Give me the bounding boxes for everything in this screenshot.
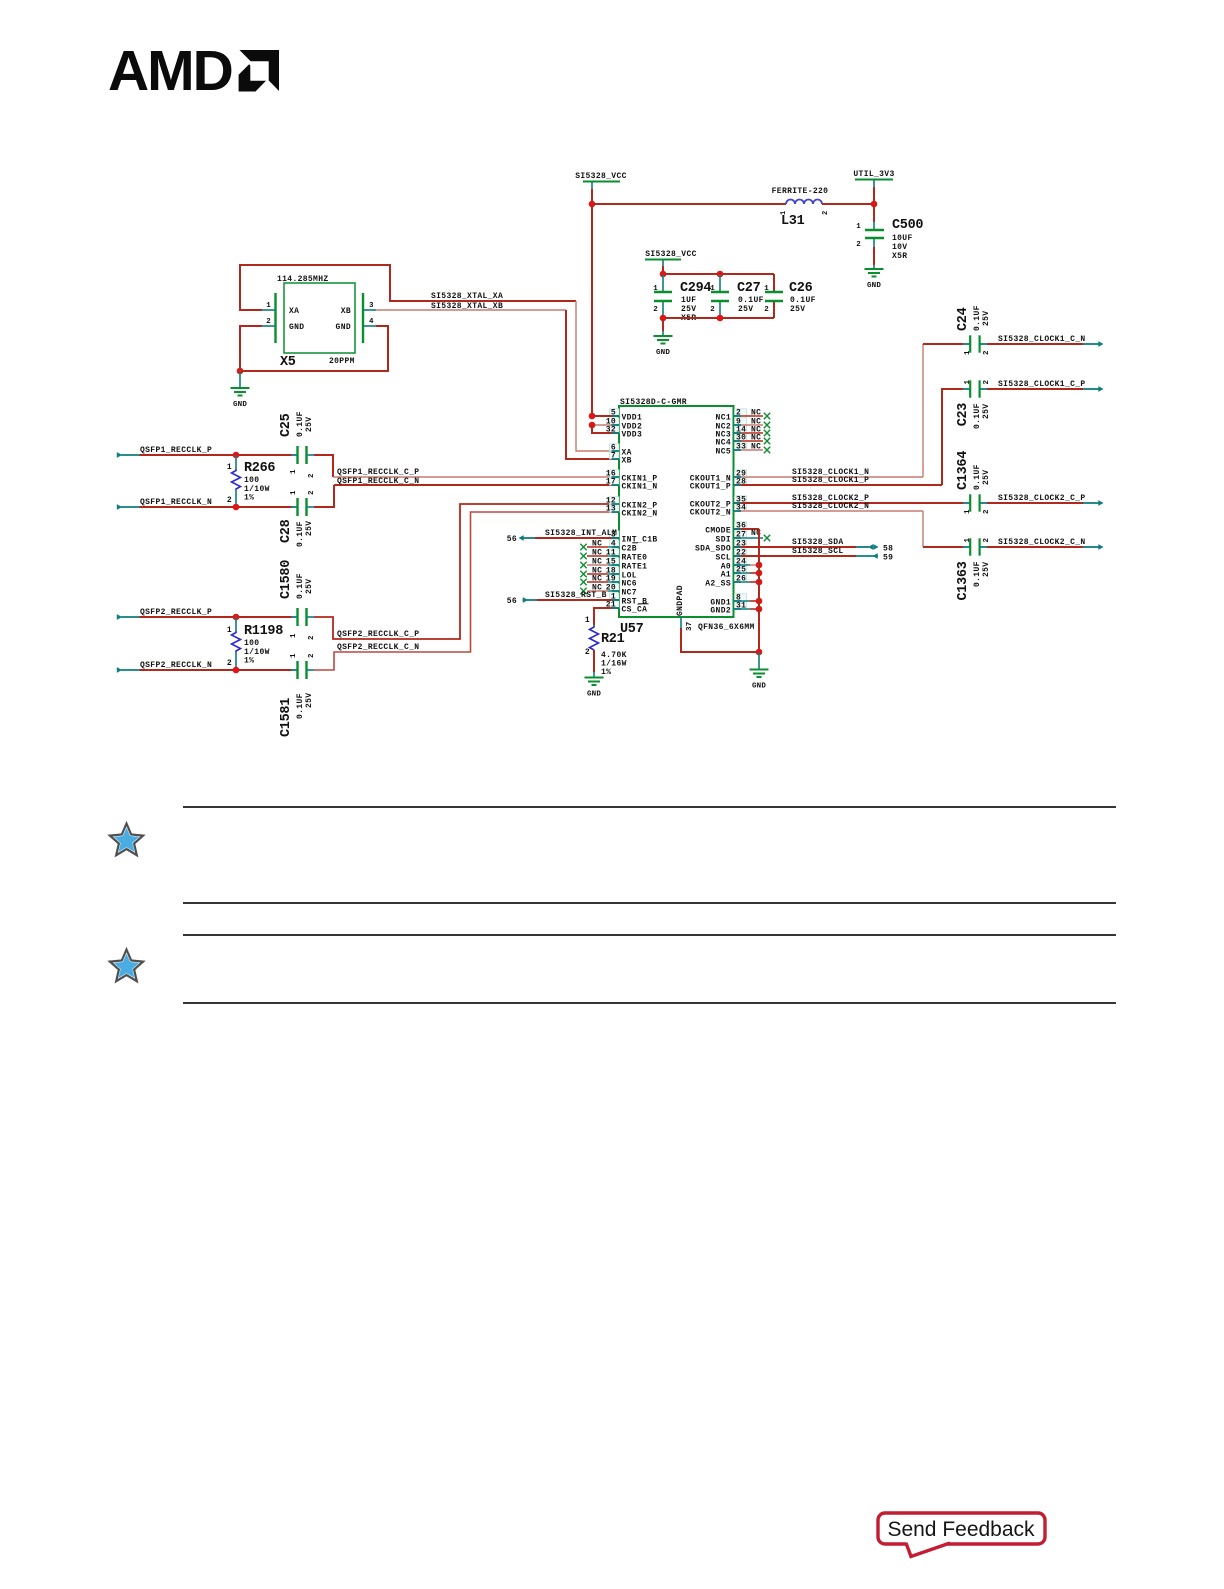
- wire to decoupling ground: [662, 318, 664, 331]
- off-page connector QSFP2_RECCLK_N: [117, 667, 122, 673]
- svg-text:58: 58: [883, 545, 893, 554]
- svg-text:10V: 10V: [892, 243, 907, 252]
- svg-text:C1363: C1363: [956, 561, 971, 600]
- svg-text:2: 2: [653, 306, 658, 314]
- svg-text:C1364: C1364: [956, 451, 971, 490]
- svg-text:QSFP2_RECCLK_C_P: QSFP2_RECCLK_C_P: [337, 630, 419, 639]
- wire XTAL_XA drop to chip pin XA: [576, 301, 619, 451]
- svg-text:NC4: NC4: [716, 439, 731, 448]
- wire crystal pin2 to ground: [262, 325, 276, 327]
- op-amp U57 SI5328D-C-GMR body: [619, 406, 734, 617]
- svg-text:SI5328_CLOCK2_N: SI5328_CLOCK2_N: [792, 502, 869, 511]
- svg-text:1: 1: [290, 633, 298, 638]
- svg-text:VDD1: VDD1: [622, 414, 643, 423]
- svg-text:NC: NC: [751, 409, 761, 418]
- svg-text:XB: XB: [341, 307, 351, 316]
- svg-text:C24: C24: [956, 307, 971, 331]
- wire VDD3: [592, 425, 619, 433]
- svg-text:2: 2: [308, 635, 316, 640]
- svg-text:L31: L31: [781, 214, 805, 229]
- wire C1581 out to QSFP2_RECCLK_C_N: [314, 512, 619, 670]
- svg-text:GNDPAD: GNDPAD: [676, 585, 685, 616]
- wire C1580 out to QSFP2_RECCLK_C_P: [314, 504, 619, 639]
- svg-text:0.1UF: 0.1UF: [973, 403, 982, 429]
- wire A0 to pullchain: [734, 564, 751, 566]
- svg-text:0.1UF: 0.1UF: [296, 521, 305, 547]
- wire A1 to pullchain: [734, 572, 751, 574]
- svg-text:2: 2: [856, 241, 861, 249]
- wire A2_SS to pullchain: [734, 581, 751, 583]
- svg-text:2: 2: [227, 659, 232, 668]
- active-low overbar CS_CA: [638, 603, 649, 605]
- pin 37 GNDPAD stub: [680, 617, 682, 628]
- chip U57 left pin number boxes: [610, 409, 620, 416]
- svg-text:SI5328_CLOCK1_P: SI5328_CLOCK1_P: [792, 476, 869, 485]
- wire SI5328_CLOCK2_P from pin 35: [734, 502, 964, 504]
- svg-text:R1198: R1198: [244, 624, 283, 639]
- svg-text:NC: NC: [751, 434, 761, 443]
- capacitor C23 0.1UF: [963, 388, 970, 390]
- svg-text:0.1UF: 0.1UF: [973, 561, 982, 587]
- capacitor C26 0.1UF: [773, 274, 775, 291]
- wire pullchain vertical CMODE to ground: [758, 529, 760, 652]
- svg-text:SI5328D-C-GMR: SI5328D-C-GMR: [620, 398, 687, 407]
- svg-text:SCL: SCL: [716, 554, 731, 563]
- junction GND1: [756, 598, 763, 605]
- svg-text:1: 1: [585, 616, 590, 625]
- svg-text:1: 1: [856, 223, 861, 231]
- crystal X5 114.285MHZ: [284, 283, 355, 353]
- junction bus top C294: [660, 271, 667, 278]
- svg-text:C294: C294: [680, 281, 711, 296]
- svg-text:X5R: X5R: [892, 252, 907, 261]
- svg-text:QSFP1_RECCLK_N: QSFP1_RECCLK_N: [140, 498, 212, 507]
- svg-text:SI5328_VCC: SI5328_VCC: [645, 250, 697, 259]
- svg-text:CS_CA: CS_CA: [622, 606, 648, 615]
- svg-text:3: 3: [369, 302, 374, 310]
- wire C25 out to QSFP1_RECCLK_C_P: [314, 455, 333, 477]
- svg-text:SDA_SDO: SDA_SDO: [695, 545, 731, 554]
- svg-text:A2_SS: A2_SS: [705, 580, 731, 589]
- svg-text:25V: 25V: [982, 404, 991, 419]
- svg-text:QSFP1_RECCLK_C_P: QSFP1_RECCLK_C_P: [337, 468, 419, 477]
- junction A2_SS: [756, 579, 763, 586]
- wire QSFP2_RECCLK_P: [140, 616, 292, 618]
- svg-text:RATE1: RATE1: [622, 563, 648, 572]
- svg-text:25V: 25V: [790, 305, 805, 314]
- wire SI5328_RST_B: [537, 599, 619, 601]
- svg-text:1: 1: [290, 490, 298, 495]
- svg-text:2: 2: [227, 496, 232, 505]
- svg-text:25V: 25V: [305, 521, 314, 536]
- capacitor C1580 0.1UF: [296, 608, 298, 626]
- wire GND2 to pullchain: [734, 608, 751, 610]
- svg-text:GND: GND: [867, 282, 881, 290]
- svg-text:1UF: 1UF: [681, 296, 696, 305]
- svg-text:NC: NC: [592, 575, 602, 584]
- capacitor C294 1UF: [662, 274, 664, 291]
- svg-text:56: 56: [507, 535, 517, 544]
- junction bus bottom C294: [660, 315, 667, 322]
- svg-text:C2B: C2B: [622, 545, 637, 554]
- svg-text:2: 2: [764, 306, 769, 314]
- wire SI5328_INT_ALM: [535, 537, 619, 539]
- wire decoupling bus bottom: [663, 317, 774, 319]
- wire decoupling bus top: [663, 273, 774, 275]
- capacitor C1581 0.1UF: [296, 661, 298, 679]
- send feedback button: [878, 1513, 1045, 1544]
- wire L31 to UTIL_3V3: [822, 203, 874, 205]
- capacitor C27 0.1UF: [719, 274, 721, 291]
- wire GNDPAD to ground: [681, 628, 759, 652]
- ground below C500: [873, 265, 875, 269]
- svg-text:QSFP2_RECCLK_N: QSFP2_RECCLK_N: [140, 661, 212, 670]
- svg-text:NC: NC: [592, 558, 602, 567]
- svg-text:NC7: NC7: [622, 589, 637, 598]
- svg-text:1: 1: [290, 653, 298, 658]
- svg-text:GND: GND: [752, 683, 766, 691]
- svg-text:114.285MHZ: 114.285MHZ: [277, 275, 329, 284]
- svg-text:XB: XB: [622, 457, 632, 466]
- wire SI5328_CLOCK2_C_N: [987, 546, 1083, 548]
- junction R1198 pin2: [233, 667, 240, 674]
- wire SI5328_CLOCK1_N from pin 29: [734, 476, 924, 478]
- svg-text:SI5328_CLOCK1_C_P: SI5328_CLOCK1_C_P: [998, 380, 1086, 389]
- svg-text:10UF: 10UF: [892, 234, 913, 243]
- junction VDD2: [589, 422, 596, 429]
- svg-text:CKOUT1_P: CKOUT1_P: [690, 483, 731, 492]
- wire QSFP1_RECCLK_P: [140, 454, 292, 456]
- svg-text:1: 1: [710, 285, 715, 293]
- svg-text:CKIN2_N: CKIN2_N: [622, 510, 658, 519]
- svg-text:100: 100: [244, 639, 259, 648]
- wire VDD1: [592, 415, 619, 417]
- svg-text:SI5328_SDA: SI5328_SDA: [792, 538, 844, 547]
- svg-text:4: 4: [369, 318, 374, 326]
- svg-text:FERRITE-220: FERRITE-220: [772, 187, 829, 196]
- svg-text:SI5328_RST_B: SI5328_RST_B: [545, 591, 607, 600]
- svg-text:QFN36_6X6MM: QFN36_6X6MM: [698, 623, 755, 632]
- wire VDD2: [592, 424, 619, 426]
- wire C500 to ground: [873, 247, 875, 265]
- svg-text:0.1UF: 0.1UF: [296, 573, 305, 599]
- svg-text:CKIN1_N: CKIN1_N: [622, 483, 658, 492]
- svg-text:SDI: SDI: [716, 536, 731, 545]
- wire SI5328_CLOCK2_C_P: [987, 502, 1083, 504]
- note rule line 3: [183, 934, 1116, 936]
- svg-text:1: 1: [227, 463, 232, 472]
- wire CLOCK2_N riser to C1363: [922, 511, 924, 547]
- junction crystal ground: [237, 368, 244, 375]
- svg-text:GND: GND: [587, 691, 601, 699]
- svg-text:1: 1: [653, 285, 658, 293]
- wire crystal pin1 top loop net SI5328_XTAL_XA: [262, 309, 276, 311]
- svg-text:20PPM: 20PPM: [329, 357, 355, 366]
- wire CLOCK1_P riser to C23: [942, 389, 964, 485]
- off-page arrow SI5328_CLOCK1_C_N: [1083, 343, 1099, 345]
- wire crystal pin4 to ground: [363, 325, 376, 327]
- svg-text:37: 37: [686, 622, 694, 631]
- note rule line 1: [183, 806, 1116, 808]
- svg-text:GND: GND: [336, 323, 351, 332]
- junction UTIL_3V3/C500: [871, 201, 878, 208]
- chip U57 pin stubs right: [734, 415, 742, 417]
- junction bus bottom C27: [717, 315, 724, 322]
- svg-text:C1580: C1580: [279, 560, 294, 599]
- wire SI5328_VCC vertical: [591, 189, 593, 416]
- junction A1: [756, 570, 763, 577]
- ground below decoupling group: [662, 331, 664, 336]
- svg-text:56: 56: [507, 597, 517, 606]
- svg-text:1: 1: [227, 626, 232, 635]
- wire C28 out to QSFP1_RECCLK_C_N: [314, 485, 334, 507]
- svg-text:59: 59: [883, 554, 893, 563]
- note star icon 1: [110, 824, 143, 856]
- off-page connector QSFP2_RECCLK_P: [117, 614, 122, 620]
- svg-text:GND2: GND2: [710, 607, 731, 616]
- wire SI5328_CLOCK1_C_N: [987, 343, 1083, 345]
- svg-text:AMD: AMD: [108, 39, 232, 103]
- svg-text:R21: R21: [601, 632, 625, 647]
- junction R1198 pin1: [233, 614, 240, 621]
- svg-text:25V: 25V: [982, 470, 991, 485]
- svg-text:1%: 1%: [601, 668, 611, 677]
- ground below crystal: [239, 371, 241, 387]
- wire CS_CA to R21: [594, 608, 619, 625]
- resistor R266 100: [235, 455, 237, 469]
- svg-text:QSFP1_RECCLK_C_N: QSFP1_RECCLK_C_N: [337, 477, 419, 486]
- wire QSFP2_RECCLK_N: [140, 669, 292, 671]
- svg-text:SI5328_CLOCK1_C_N: SI5328_CLOCK1_C_N: [998, 335, 1086, 344]
- svg-text:100: 100: [244, 476, 259, 485]
- svg-text:NC6: NC6: [622, 580, 637, 589]
- ground below U57: [758, 652, 760, 669]
- svg-text:1: 1: [964, 380, 972, 385]
- svg-text:2: 2: [266, 318, 271, 326]
- wire R21 to ground: [593, 650, 595, 672]
- svg-text:1: 1: [290, 469, 298, 474]
- note rule line 4: [183, 1002, 1116, 1004]
- capacitor C1363 0.1UF: [963, 546, 970, 548]
- junction R266 pin2: [233, 504, 240, 511]
- junction GNDPAD/ground: [756, 649, 763, 656]
- svg-text:Send Feedback: Send Feedback: [887, 1518, 1035, 1541]
- no-connects on left pins C2B..NC7: [580, 544, 586, 550]
- svg-text:SI5328_INT_ALM: SI5328_INT_ALM: [545, 529, 617, 538]
- svg-text:25V: 25V: [305, 417, 314, 432]
- junction R266 pin1: [233, 452, 240, 459]
- svg-text:C26: C26: [789, 281, 813, 296]
- svg-text:0.1UF: 0.1UF: [790, 296, 816, 305]
- off-page arrow SI5328_CLOCK2_C_N: [1083, 546, 1099, 548]
- svg-text:SI5328_XTAL_XA: SI5328_XTAL_XA: [431, 292, 503, 301]
- svg-text:C25: C25: [279, 413, 294, 437]
- svg-text:0.1UF: 0.1UF: [973, 305, 982, 331]
- svg-text:2: 2: [585, 648, 590, 657]
- wire CMODE to pullchain: [734, 528, 760, 530]
- svg-text:1%: 1%: [244, 657, 254, 666]
- svg-text:R266: R266: [244, 461, 275, 476]
- wire SI5328_SCL from SCL: [734, 555, 857, 557]
- svg-text:NC: NC: [592, 540, 602, 549]
- svg-text:C1581: C1581: [279, 698, 294, 737]
- svg-text:2: 2: [983, 380, 991, 385]
- off-page connector 58 SI5328_SDA: [856, 546, 869, 548]
- off-page arrow SI5328_CLOCK1_C_P: [1083, 388, 1099, 390]
- chip U57 pin stubs left: [612, 415, 620, 417]
- off-page connector 59 SI5328_SCL: [856, 555, 878, 557]
- svg-text:QSFP2_RECCLK_C_N: QSFP2_RECCLK_C_N: [337, 643, 419, 652]
- svg-text:0.1UF: 0.1UF: [296, 693, 305, 719]
- svg-text:SI5328_SCL: SI5328_SCL: [792, 547, 844, 556]
- svg-text:1: 1: [964, 350, 972, 355]
- capacitor C24 0.1UF: [963, 343, 970, 345]
- svg-text:2: 2: [308, 473, 316, 478]
- note star icon 2: [110, 950, 143, 982]
- wire SI5328_CLOCK2_N from pin 34: [734, 510, 924, 512]
- wire SI5328_SDA from SDA_SDO: [734, 546, 857, 548]
- off-page connector QSFP1_RECCLK_N: [117, 504, 122, 510]
- svg-text:GND: GND: [289, 323, 304, 332]
- wire QSFP1_RECCLK_N: [140, 506, 292, 508]
- svg-text:25V: 25V: [305, 579, 314, 594]
- resistor R1198 100: [235, 617, 237, 631]
- svg-text:CMODE: CMODE: [705, 527, 731, 536]
- svg-text:1: 1: [780, 211, 788, 215]
- svg-text:SI5328_VCC: SI5328_VCC: [575, 172, 627, 181]
- svg-text:C23: C23: [956, 403, 971, 427]
- svg-text:C500: C500: [892, 218, 923, 233]
- svg-text:2: 2: [308, 490, 316, 495]
- svg-text:CKOUT2_N: CKOUT2_N: [690, 509, 731, 518]
- svg-text:NC5: NC5: [716, 448, 731, 457]
- svg-text:UTIL_3V3: UTIL_3V3: [853, 170, 894, 179]
- svg-text:2: 2: [983, 350, 991, 355]
- wire VCC to L31: [592, 203, 786, 205]
- wire XTAL_XB drop to chip pin XB: [566, 310, 619, 459]
- svg-text:2: 2: [983, 538, 991, 543]
- svg-text:INT_C1B: INT_C1B: [622, 536, 658, 545]
- wire CLOCK1_N riser to C24: [922, 344, 924, 477]
- wire SI5328_CLOCK1_P from pin 28: [734, 484, 943, 486]
- capacitor C1364 0.1UF: [963, 502, 970, 504]
- wire SI5328_CLOCK1_C_P: [987, 388, 1083, 390]
- svg-text:0.1UF: 0.1UF: [296, 411, 305, 437]
- off-page arrow SI5328_CLOCK2_C_P: [1083, 502, 1099, 504]
- svg-text:1%: 1%: [244, 494, 254, 503]
- capacitor C28 0.1UF: [296, 498, 298, 516]
- capacitor C500 10UF: [873, 222, 875, 229]
- svg-text:25V: 25V: [982, 311, 991, 326]
- inductor L31 FERRITE-220: [786, 200, 822, 205]
- svg-text:C27: C27: [737, 281, 761, 296]
- svg-text:1: 1: [964, 509, 972, 514]
- wire crystal pin3 net SI5328_XTAL_XB: [363, 309, 376, 311]
- svg-text:25V: 25V: [738, 305, 753, 314]
- svg-text:XA: XA: [289, 307, 299, 316]
- svg-text:SI5328_CLOCK2_C_P: SI5328_CLOCK2_C_P: [998, 494, 1086, 503]
- svg-text:VDD3: VDD3: [622, 431, 643, 440]
- svg-text:1: 1: [266, 302, 271, 310]
- svg-text:2: 2: [822, 211, 830, 215]
- no-connect SDI pin 27: [734, 537, 764, 539]
- active-low overbar C2B: [632, 542, 638, 544]
- svg-text:NC: NC: [751, 443, 761, 452]
- svg-text:SI5328_XTAL_XB: SI5328_XTAL_XB: [431, 302, 503, 311]
- svg-text:25V: 25V: [982, 562, 991, 577]
- capacitor C25 0.1UF: [296, 446, 298, 464]
- svg-text:25V: 25V: [681, 305, 696, 314]
- svg-text:0.1UF: 0.1UF: [738, 296, 764, 305]
- svg-text:QSFP1_RECCLK_P: QSFP1_RECCLK_P: [140, 446, 212, 455]
- junction VCC/L31: [589, 201, 596, 208]
- svg-text:RATE0: RATE0: [622, 554, 648, 563]
- svg-text:GND: GND: [656, 349, 670, 357]
- svg-text:NC: NC: [592, 549, 602, 558]
- junction A0: [756, 562, 763, 569]
- note rule line 2: [183, 902, 1116, 904]
- svg-text:NC1: NC1: [716, 414, 731, 423]
- svg-text:2: 2: [308, 653, 316, 658]
- wire to C500: [873, 204, 875, 222]
- svg-text:A1: A1: [721, 571, 731, 580]
- ground below R21: [585, 677, 604, 679]
- svg-text:1: 1: [964, 538, 972, 543]
- svg-text:QSFP2_RECCLK_P: QSFP2_RECCLK_P: [140, 608, 212, 617]
- svg-text:1: 1: [764, 285, 769, 293]
- junction GND2: [756, 606, 763, 613]
- wire GND1 to pullchain: [734, 600, 751, 602]
- svg-text:X5: X5: [280, 355, 296, 370]
- chip U57 right pin number boxes: [735, 409, 747, 416]
- svg-text:25V: 25V: [305, 693, 314, 708]
- junction bus top C27: [717, 271, 724, 278]
- off-page connector QSFP1_RECCLK_P: [117, 452, 122, 458]
- svg-text:2: 2: [710, 306, 715, 314]
- svg-text:SI5328_CLOCK2_C_N: SI5328_CLOCK2_C_N: [998, 538, 1086, 547]
- svg-text:GND: GND: [233, 401, 247, 409]
- junction VDD1: [589, 413, 596, 420]
- svg-text:0.1UF: 0.1UF: [973, 464, 982, 490]
- svg-text:2: 2: [983, 509, 991, 514]
- no-connects on right pins NC1..NC5: [734, 415, 764, 417]
- svg-text:C28: C28: [279, 519, 294, 543]
